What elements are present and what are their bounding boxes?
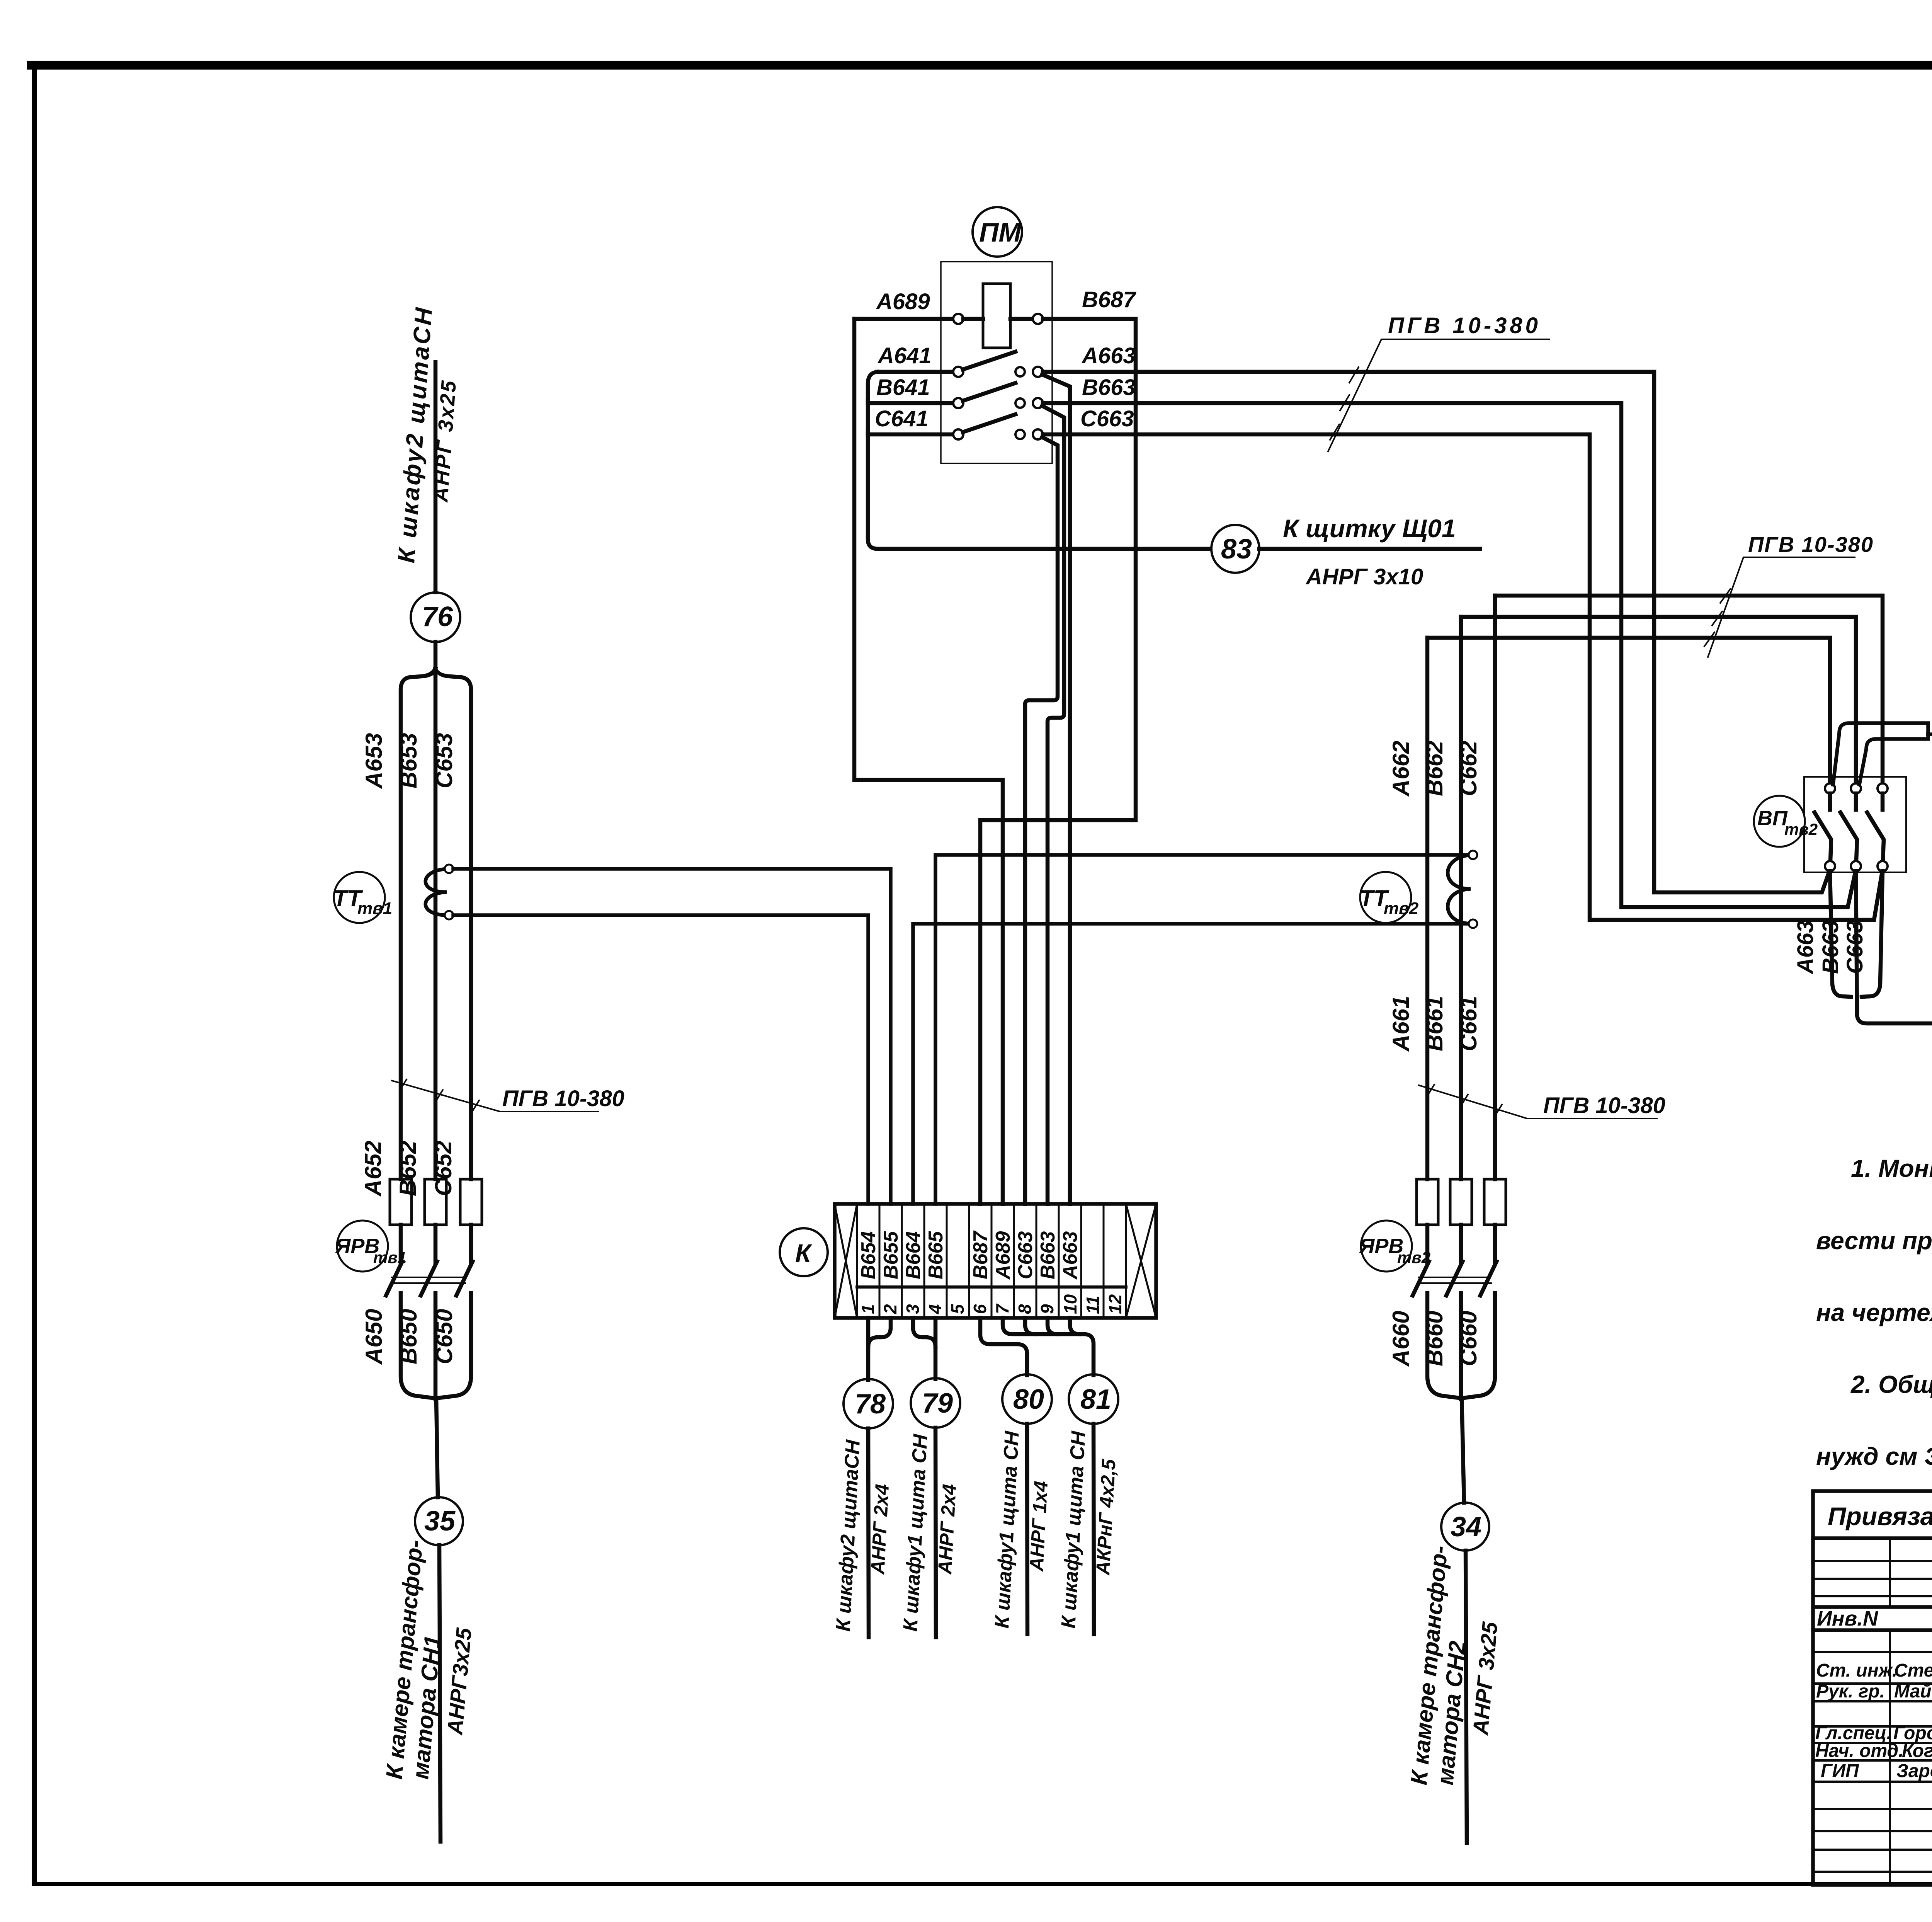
current transformer TT-tv1 loops on phase B	[425, 869, 449, 915]
svg-text:С653: С653	[431, 733, 457, 788]
svg-text:8: 8	[1015, 1304, 1035, 1314]
leader line PGV 10-380 right	[1708, 557, 1855, 657]
VP blades	[1815, 812, 1884, 861]
thin outline box of contactor PM	[941, 262, 1052, 463]
node circle 78	[844, 1379, 893, 1428]
svg-text:С663: С663	[1014, 1231, 1037, 1279]
contact row A641-A663	[868, 372, 877, 400]
svg-text:А662: А662	[1388, 741, 1414, 797]
node circle 80	[1002, 1374, 1052, 1424]
phase wire A661 vertical	[1425, 638, 1430, 1179]
svg-text:тв2: тв2	[1397, 1248, 1430, 1267]
svg-text:ПГВ 10-380: ПГВ 10-380	[1543, 1093, 1665, 1118]
wire C662 horizontal from phase C to VP	[1495, 596, 1883, 784]
SECTION-RIGHT : feeder CH2 and switch VP-tv2	[1413, 596, 1883, 1843]
svg-text:тв1: тв1	[373, 1248, 406, 1267]
switch blade phase C	[456, 1261, 473, 1296]
svg-text:83: 83	[1221, 534, 1252, 565]
node circle 76	[411, 592, 460, 642]
svg-text:Рук. гр.: Рук. гр.	[1816, 1681, 1885, 1702]
circles around labels TT-tv1 and YARV-tv1	[334, 872, 385, 923]
svg-text:В654: В654	[857, 1231, 880, 1279]
node circle K	[780, 1228, 828, 1276]
svg-text:А663: А663	[1793, 920, 1818, 975]
wire from 76 splitting into three phase wires	[434, 642, 438, 674]
jog from contact C663 down then step to col8	[1025, 437, 1058, 1204]
svg-text:6: 6	[970, 1304, 990, 1314]
node circle 83	[1211, 525, 1259, 573]
svg-text:А653: А653	[361, 733, 387, 789]
switch blade phase B	[421, 1261, 437, 1296]
svg-text:А689: А689	[876, 289, 930, 314]
wires below switch merging to one cable	[1427, 1293, 1462, 1398]
VP pole stems	[1830, 793, 1883, 810]
svg-text:С661: С661	[1456, 996, 1481, 1051]
svg-text:Инв.N: Инв.N	[1817, 1607, 1878, 1630]
svg-text:А661: А661	[1388, 996, 1414, 1052]
node circle 35	[415, 1497, 463, 1545]
wire TT-tv2 secondary bottom rail to col3	[913, 924, 1468, 1204]
left table outline	[1813, 1491, 1932, 1885]
cable below 81	[1094, 1424, 1094, 1634]
svg-text:С652: С652	[430, 1141, 456, 1196]
SECTION-LEFT : feeder CH1	[386, 362, 891, 1842]
left table horizontal lines	[1813, 1536, 1932, 1540]
svg-text:1. Монтаж вводного устройст: 1. Монтаж вводного устройства собственны…	[1851, 1154, 1932, 1182]
wire col3 bend joining col4	[913, 1318, 935, 1347]
svg-text:9: 9	[1037, 1304, 1057, 1314]
svg-text:80: 80	[1013, 1384, 1044, 1415]
svg-text:4: 4	[925, 1304, 945, 1314]
block column separators	[857, 1204, 1126, 1318]
svg-text:на чертеже.: на чертеже.	[1816, 1299, 1932, 1326]
svg-text:35: 35	[424, 1506, 456, 1537]
svg-text:В653: В653	[396, 733, 422, 788]
svg-text:тв2: тв2	[1384, 899, 1419, 918]
svg-text:Степочкина: Степочкина	[1894, 1660, 1932, 1681]
fuse box phase A of YARV-tv2	[1417, 1179, 1438, 1225]
svg-text:В664: В664	[902, 1231, 925, 1279]
SECTION-RAILS : TT-tv2 secondary rails to terminal cols 3 and 4	[913, 855, 1468, 1204]
contact row B641-B663	[866, 400, 870, 431]
wire TT-tv1 secondary top rail to terminal col2	[453, 869, 891, 1204]
leader line PGV 10-380 lower-left	[392, 1081, 598, 1112]
svg-text:ЯРВ: ЯРВ	[335, 1234, 379, 1258]
svg-text:2. Общий вид вводного устро: 2. Общий вид вводного устройства собстве…	[1850, 1370, 1932, 1398]
svg-text:АНРГ 1х4: АНРГ 1х4	[1026, 1480, 1052, 1572]
switch blade phase A	[386, 1261, 402, 1296]
SECTION-NOTES : notes text	[1816, 1154, 1932, 1470]
wire TT-tv2 secondary top rail to col4	[935, 855, 1468, 1204]
fuse box phase B of YARV-tv2	[1450, 1179, 1472, 1225]
svg-text:ПМ: ПМ	[979, 217, 1022, 247]
node circle 81	[1069, 1374, 1118, 1424]
svg-text:А650: А650	[361, 1309, 387, 1365]
frame top bar	[27, 61, 1932, 70]
frame left border	[32, 66, 37, 1885]
svg-text:В652: В652	[395, 1141, 421, 1196]
svg-text:В661: В661	[1422, 996, 1447, 1051]
svg-text:Нач. отд.: Нач. отд.	[1815, 1741, 1904, 1761]
wire A662 horizontal from phase A to VP	[1427, 638, 1830, 784]
left bus wire A689 down and to terminal col7	[854, 319, 1003, 1204]
wire col6 step right down to circle 80	[980, 1318, 1027, 1375]
svg-text:ВП: ВП	[1757, 807, 1788, 830]
svg-text:В662: В662	[1422, 741, 1447, 796]
wire col1 down to circle 78	[866, 1318, 871, 1380]
phase wire C661 vertical	[1493, 596, 1497, 1179]
svg-text:76: 76	[422, 601, 453, 632]
svg-text:С641: С641	[875, 406, 929, 431]
svg-text:ПГВ 10-380: ПГВ 10-380	[502, 1086, 624, 1111]
svg-text:К шкафу2 щитаСН: К шкафу2 щитаСН	[832, 1439, 864, 1632]
svg-text:С650: С650	[431, 1309, 457, 1364]
svg-text:ПГВ 10-380: ПГВ 10-380	[1388, 313, 1541, 338]
switch blade phase C	[1480, 1261, 1497, 1296]
cable to transformer chamber CH2	[1466, 1551, 1467, 1843]
cable to transformer chamber CH1	[439, 1545, 440, 1842]
svg-text:Ст. инж.: Ст. инж.	[1816, 1660, 1897, 1681]
svg-text:С660: С660	[1456, 1311, 1481, 1366]
frame bottom border	[32, 1882, 1932, 1886]
svg-text:78: 78	[855, 1389, 886, 1420]
svg-text:К: К	[795, 1239, 813, 1267]
svg-text:АКРнГ 4х2,5: АКРнГ 4х2,5	[1092, 1458, 1120, 1576]
leader line PGV 10-380 top middle	[1328, 339, 1549, 451]
VP top terminals	[1825, 783, 1835, 793]
node circle PM	[973, 207, 1022, 257]
svg-text:81: 81	[1080, 1384, 1111, 1415]
svg-text:К шкафу1 щита СН: К шкафу1 щита СН	[991, 1430, 1024, 1629]
svg-text:тв2: тв2	[1784, 820, 1818, 838]
svg-text:5: 5	[947, 1304, 968, 1314]
fuse box phase A of YARV-tv1	[390, 1179, 412, 1225]
leader line PGV 10-380 lower-right	[1419, 1085, 1657, 1118]
svg-text:В655: В655	[880, 1231, 902, 1279]
cable below 80	[1027, 1424, 1027, 1634]
wire TT-tv1 secondary bottom rail to terminal col1	[453, 915, 868, 1204]
wires through fuses down to switch contacts	[399, 1225, 403, 1263]
switch box VP-tv2	[1804, 777, 1906, 872]
wires through fuses down to switch contacts	[1427, 1225, 1495, 1263]
svg-text:С663: С663	[1080, 406, 1134, 431]
wire to circle 76 from top	[434, 362, 438, 592]
svg-text:3: 3	[903, 1304, 923, 1314]
svg-text:ЯРВ: ЯРВ	[1359, 1234, 1403, 1258]
svg-text:А660: А660	[1388, 1311, 1414, 1367]
svg-text:11: 11	[1083, 1296, 1103, 1314]
svg-text:К шкафу1 щита СН: К шкафу1 щита СН	[899, 1433, 932, 1632]
phase wire B661 vertical	[1459, 617, 1463, 1179]
svg-text:Коган: Коган	[1902, 1741, 1932, 1761]
fuse box phase B of YARV-tv1	[425, 1179, 446, 1225]
svg-text:АНРГ3х25: АНРГ3х25	[442, 1627, 476, 1736]
svg-text:Зарецкий: Зарецкий	[1896, 1761, 1932, 1781]
wire B662 horizontal from phase B to VP	[1461, 617, 1856, 784]
svg-text:В665: В665	[925, 1231, 947, 1279]
block inner horizontal line	[857, 1285, 1126, 1289]
switch operating bar lines	[392, 1277, 464, 1278]
svg-text:34: 34	[1451, 1512, 1481, 1542]
cable to panel Shch01	[1259, 547, 1480, 551]
cable fork from circle 82 to VP top terminals	[1833, 723, 1928, 785]
svg-text:1: 1	[858, 1304, 878, 1314]
svg-text:2: 2	[880, 1304, 900, 1314]
svg-text:ПГВ 10-380: ПГВ 10-380	[1748, 532, 1874, 557]
svg-text:В687: В687	[1082, 287, 1136, 312]
svg-text:вести проводом ПГВ 2,5-380,: вести проводом ПГВ 2,5-380, кроме цепей,…	[1816, 1227, 1932, 1255]
VP bottom terminals	[1825, 861, 1835, 871]
svg-text:В663: В663	[1818, 920, 1843, 974]
current transformer TT-tv2 loops on phase B	[1448, 855, 1473, 924]
svg-text:Привязан: Привязан	[1828, 1502, 1932, 1530]
svg-text:АНРГ 3х25: АНРГ 3х25	[1468, 1621, 1502, 1736]
svg-text:А652: А652	[360, 1141, 386, 1197]
fuse box phase C of YARV-tv2	[1484, 1179, 1506, 1225]
cable below 79	[935, 1428, 936, 1637]
coil rectangle of PM	[983, 284, 1010, 348]
svg-text:К шкафу1 щита СН: К шкафу1 щита СН	[1057, 1430, 1090, 1629]
switch blade phase A	[1413, 1261, 1429, 1296]
svg-text:79: 79	[922, 1388, 953, 1419]
wire col4 down to circle 79	[934, 1318, 938, 1379]
switch operating bar lines	[1418, 1277, 1491, 1283]
svg-text:нужд см ЭЛ-27.: нужд см ЭЛ-27.	[1816, 1442, 1932, 1470]
SECTION-BLOCK : terminal block K	[780, 1204, 1156, 1318]
svg-text:В663: В663	[1037, 1231, 1059, 1279]
svg-text:А663: А663	[1059, 1231, 1082, 1280]
switch blade phase B	[1446, 1261, 1463, 1296]
svg-text:10: 10	[1060, 1294, 1080, 1314]
svg-text:АНРГ 2х4: АНРГ 2х4	[867, 1483, 893, 1575]
svg-text:Майстровая: Майстровая	[1894, 1681, 1932, 1702]
left table vertical separators	[1890, 1538, 1932, 1607]
svg-text:А689: А689	[992, 1231, 1014, 1280]
X mark right end cell	[1126, 1204, 1156, 1318]
SECTION-TITLE : title block	[1813, 1491, 1932, 1885]
coil row wire A689-B687	[854, 317, 954, 321]
svg-text:ГИП: ГИП	[1821, 1761, 1859, 1781]
cable below 78	[868, 1428, 869, 1637]
svg-text:7: 7	[992, 1303, 1012, 1314]
svg-text:тв1: тв1	[357, 899, 392, 918]
fuse box phase C of YARV-tv1	[460, 1179, 482, 1225]
svg-text:А663: А663	[1081, 343, 1136, 368]
svg-text:В687: В687	[969, 1231, 992, 1279]
X mark left end cell	[835, 1204, 857, 1318]
svg-text:В663: В663	[1082, 375, 1136, 400]
wire col2 bend joining col1	[868, 1318, 891, 1347]
wires col7 col8 col9 col10 joining bus to circle 81	[1003, 1318, 1094, 1375]
node circle 34	[1441, 1503, 1489, 1551]
svg-text:АНРГ 2х4: АНРГ 2х4	[934, 1483, 960, 1575]
svg-text:К шкафу2 щитаСН: К шкафу2 щитаСН	[393, 305, 437, 564]
jog from contact A663 down to col10	[1042, 375, 1070, 1204]
svg-text:С663: С663	[1842, 920, 1867, 974]
label circle VP-tv2	[1754, 796, 1805, 847]
contact row C641-C663	[868, 431, 1211, 549]
wires below switch merging to one cable	[401, 1293, 435, 1398]
svg-text:В641: В641	[876, 375, 930, 400]
SECTION-PM : contactor PM	[854, 207, 1883, 1204]
svg-text:АНРГ 3х10: АНРГ 3х10	[1305, 564, 1423, 589]
svg-text:В650: В650	[396, 1309, 422, 1364]
svg-text:С662: С662	[1456, 741, 1481, 796]
cables from VP bottom terminals merging to circle 77	[1830, 871, 1851, 997]
node circle 79	[911, 1378, 960, 1428]
circles around labels TT-tv2 and YARV-tv2	[1360, 872, 1411, 923]
svg-text:В660: В660	[1422, 1311, 1447, 1366]
svg-text:А641: А641	[877, 343, 932, 368]
terminal block outline	[835, 1204, 1156, 1318]
svg-text:12: 12	[1105, 1294, 1125, 1314]
svg-text:К щитку Щ01: К щитку Щ01	[1283, 514, 1456, 543]
jog from contact B663 down then step to col9	[1042, 406, 1064, 1204]
